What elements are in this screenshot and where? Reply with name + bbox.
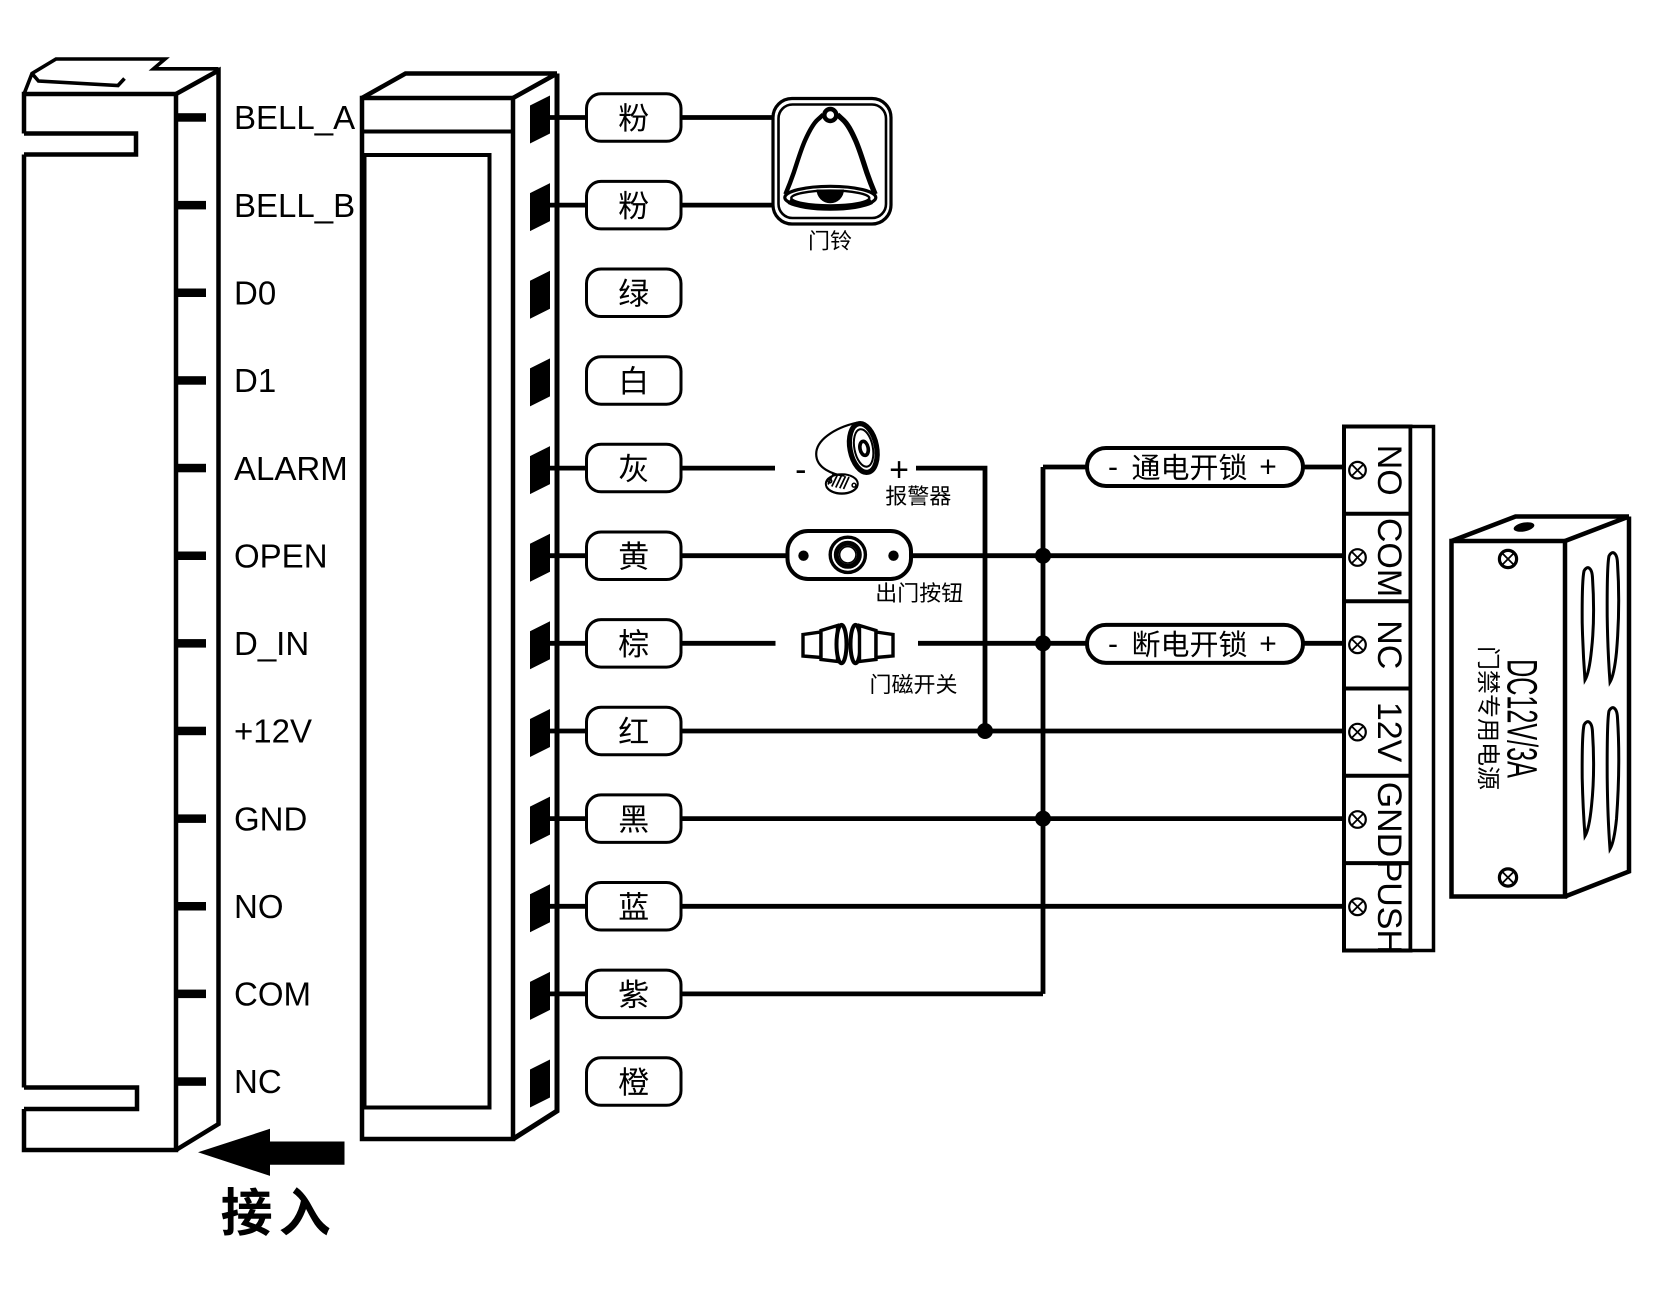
svg-text:-: - (795, 451, 806, 489)
wire BELL_A pink to doorbell (550, 115, 773, 120)
svg-text:12V: 12V (1370, 702, 1408, 763)
svg-text:D1: D1 (234, 362, 276, 399)
junction dot NC row (1035, 635, 1051, 651)
doorbell label (810, 230, 828, 250)
power supply text 门禁专用电源 (1478, 648, 1500, 668)
power-to-unlock pill 通电开锁 (1087, 448, 1303, 486)
controller 3D side face (176, 71, 219, 1151)
svg-text:NC: NC (234, 1063, 282, 1100)
wire COM purple to common bus (550, 992, 1043, 997)
controller top slot (24, 134, 136, 155)
svg-text:GND: GND (1370, 782, 1408, 858)
access arrow (198, 1129, 345, 1176)
svg-text:BELL_A: BELL_A (234, 99, 355, 136)
svg-text:OPEN: OPEN (234, 537, 328, 574)
svg-text:BELL_B: BELL_B (234, 187, 355, 224)
wire siren plus to 12V net (916, 468, 985, 731)
reader box inner panel (365, 155, 490, 1108)
junction dot 12V-siren (977, 723, 993, 739)
terminal screws and labels NO COM NC 12V GND PUSH (1349, 462, 1366, 479)
svg-text:NC: NC (1370, 620, 1408, 669)
exit button 出门按钮 icon (788, 531, 912, 579)
controller top face and lid flap (24, 59, 219, 94)
wire exit button to COM terminal (911, 553, 1344, 558)
svg-text:NO: NO (234, 888, 284, 925)
wire NO blue to PUSH terminal (550, 904, 1344, 909)
reader terminal blocks (12) (530, 96, 550, 144)
svg-text:ALARM: ALARM (234, 450, 348, 487)
controller terminal pins (12) (176, 113, 206, 122)
svg-text:+: + (889, 451, 909, 489)
wire +12V red to 12V terminal (550, 729, 1344, 734)
wire colour labels 粉..橙 (587, 94, 682, 142)
wire common bus vertical (1043, 467, 1344, 994)
doorbell 门铃 icon (773, 99, 891, 225)
svg-text:NO: NO (1370, 445, 1408, 496)
siren label (886, 485, 906, 505)
svg-text:PUSH: PUSH (1370, 860, 1408, 954)
reader box top band (362, 130, 513, 134)
door switch label (872, 674, 890, 694)
siren 报警器 icon (846, 421, 882, 475)
svg-text:D_IN: D_IN (234, 625, 309, 662)
svg-text:-: - (1108, 451, 1118, 484)
door magnetic switch 门磁开关 icon (803, 632, 821, 658)
access controller box (left) front face (24, 94, 176, 1150)
svg-text:COM: COM (234, 976, 311, 1013)
caption 接入 (222, 1187, 271, 1236)
reader box 3D side face (513, 74, 557, 1140)
power supply box DC12V/3A (1452, 541, 1566, 897)
wire BELL_B pink to doorbell (550, 203, 773, 208)
svg-text:GND: GND (234, 800, 307, 837)
svg-text:D0: D0 (234, 275, 276, 312)
terminal labels BELL_A..NC (234, 99, 355, 1100)
power-off-unlock pill 断电开锁 (1087, 625, 1303, 663)
wire D_IN brown to door sensor (550, 641, 776, 646)
wire door sensor to unlock-off label (918, 641, 1087, 646)
junction dot GND row (1035, 811, 1051, 827)
junction dot COM row (1035, 548, 1051, 564)
reader box 3D top face (362, 74, 557, 99)
wire GND black to GND terminal (550, 816, 1344, 821)
wire OPEN yellow to exit button (550, 553, 788, 558)
exit button label (877, 582, 894, 602)
svg-text:+12V: +12V (234, 713, 312, 750)
svg-text:+: + (1259, 627, 1277, 660)
svg-text:-: - (1108, 627, 1118, 660)
reader box front face (362, 98, 513, 1139)
svg-text:COM: COM (1370, 518, 1408, 597)
svg-text:+: + (1259, 451, 1277, 484)
wire unlock-off label to NC terminal (1303, 641, 1344, 646)
wire ALARM grey to siren minus (550, 466, 775, 471)
controller bottom slot (24, 1088, 137, 1110)
svg-text:DC12V/3A: DC12V/3A (1498, 659, 1546, 778)
lock terminal block body (1344, 427, 1411, 951)
